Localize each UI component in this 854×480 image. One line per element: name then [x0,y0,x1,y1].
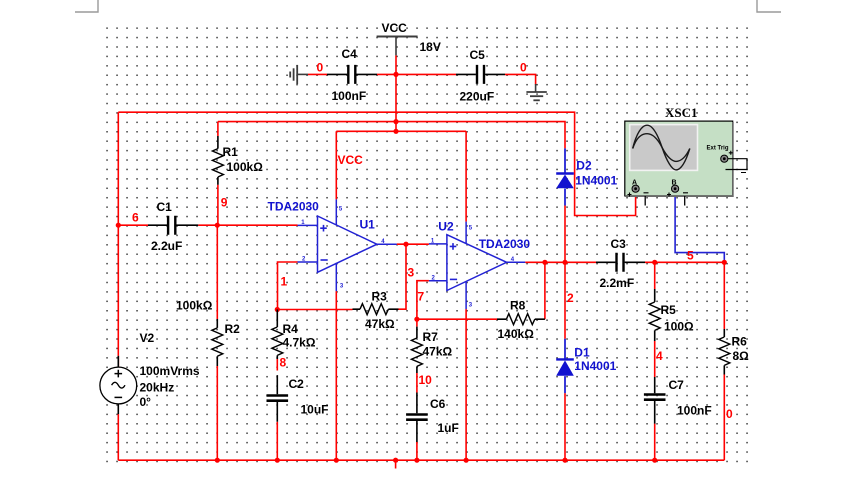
scope A plus minus marks [628,193,649,197]
junction net6 left [116,223,121,228]
junction net9 [215,223,220,228]
junction net2 at D1 [562,260,567,265]
svg-text:C4: C4 [342,47,358,61]
svg-text:1: 1 [281,275,288,289]
wire net9 C1 to U1 pin1 [198,224,297,226]
diode D1 1N4001 [556,339,574,393]
wire net4 segment [654,341,656,377]
svg-text:100mVrms: 100mVrms [140,364,200,378]
svg-text:B: B [672,179,677,186]
svg-text:0°: 0° [140,395,152,409]
wire bottom stub [395,460,397,468]
resistor R2 [212,319,223,366]
svg-text:100Ω: 100Ω [664,320,694,334]
capacitor C4 [327,65,377,84]
capacitor C2 [267,375,289,422]
svg-text:5: 5 [687,249,694,263]
svg-text:2.2mF: 2.2mF [600,276,635,290]
page corner top-right [757,0,781,12]
ground right of C5 [526,84,546,100]
wire R2 bottom to bus [216,366,218,460]
wire R8 right up to net2 [544,262,546,319]
scope B plus minus marks [667,193,688,197]
resistor R5 [649,289,660,341]
svg-text:100kΩ: 100kΩ [227,160,264,174]
svg-text:1N4001: 1N4001 [574,359,616,373]
scope stub ext trig [726,159,748,170]
svg-text:R3: R3 [372,290,388,304]
ground left (rotated) near C4 [290,65,308,84]
wire U1 pin2 to node1 [278,262,298,310]
capacitor C7 [644,377,666,424]
junction bus C7 [652,458,657,463]
op-amp U1 TDA2030 [298,199,397,291]
junction node3 [403,242,408,247]
junction bus stub [393,458,398,463]
diode D2 1N4001 [556,148,574,205]
wire U2 pin5 supply [465,131,467,221]
junction node1 [275,307,280,312]
svg-text:C6: C6 [430,397,446,411]
svg-text:100nF: 100nF [677,404,712,418]
svg-text:C3: C3 [611,237,627,251]
wire R6 top lead [723,262,725,329]
wire D2 top red [564,206,566,263]
resistor R8 [497,314,545,325]
junction bus R2 [215,458,220,463]
wire scope B blue [675,196,724,262]
svg-text:C7: C7 [669,378,685,392]
scope stub B minus [684,196,686,206]
capacitor C5 [456,65,505,84]
svg-text:U1: U1 [360,217,376,231]
source V2 [100,356,137,414]
capacitor C3 [596,253,645,272]
svg-text:2.2uF: 2.2uF [151,239,182,253]
svg-text:100kΩ: 100kΩ [176,299,213,313]
wire node7 run to R8 [417,318,497,320]
wire VCC rail 2 (R1 to D2) [218,122,565,149]
resistor R3 [353,304,399,315]
svg-text:2: 2 [567,291,574,305]
junction bus U1 pin3 [334,458,339,463]
svg-text:D1: D1 [574,346,590,360]
svg-text:D2: D2 [576,159,592,173]
wire R4 red segment net8 [276,359,278,371]
op-amp U2 TDA2030 [429,222,525,310]
scope terminal A [632,185,639,192]
svg-text:R6: R6 [732,335,748,349]
junction bus D1 [562,458,567,463]
svg-text:7: 7 [418,290,425,304]
svg-text:3: 3 [408,266,415,280]
wire R1 bottom to node9 [217,185,219,226]
svg-text:10: 10 [419,373,433,387]
wire U1 pin5 supply [335,131,337,199]
svg-text:C2: C2 [289,377,305,391]
wire R6 bottom to bus [723,375,725,461]
svg-text:A: A [632,179,637,186]
junction net5 at R5 [652,260,657,265]
scope stub A minus [644,196,646,206]
svg-text:4: 4 [656,349,663,363]
wire R1 top lead [217,122,219,136]
junction bus U2 pin3 [464,458,469,463]
svg-text:Ext Trig: Ext Trig [707,146,729,152]
svg-text:1N4001: 1N4001 [575,174,617,188]
svg-text:C5: C5 [470,48,486,62]
svg-text:8Ω: 8Ω [733,349,750,363]
wire U2 output net2 [525,261,724,263]
svg-text:R2: R2 [225,322,241,336]
resistor R1 [212,136,223,185]
wire V2 bottom to bus [117,414,119,460]
wire net3 down to R3 right [399,244,407,309]
wire U1 output to U2 pin1 (net 3) [397,243,429,245]
wire R5 top lead [654,262,656,289]
capacitor C1 [148,216,198,235]
junction net2 at U2 out [542,260,547,265]
svg-text:VCC: VCC [382,21,408,35]
svg-text:140kΩ: 140kΩ [498,327,535,341]
svg-text:V2: V2 [140,331,155,345]
svg-text:C1: C1 [157,200,173,214]
svg-text:TDA2030: TDA2030 [479,237,531,251]
svg-text:10uF: 10uF [301,403,329,417]
svg-text:6: 6 [132,211,139,225]
wire R7 top lead [416,319,418,326]
svg-text:47kΩ: 47kΩ [423,345,453,359]
svg-text:18V: 18V [420,40,441,54]
scope terminal Ext [721,155,728,162]
svg-text:0: 0 [520,61,527,75]
svg-text:R8: R8 [510,299,526,313]
junction node top rail at VCC stem [393,72,398,77]
VCC power symbol [377,37,418,56]
svg-text:100nF: 100nF [332,89,367,103]
svg-text:0: 0 [317,61,324,75]
junction VCC rail2 [393,119,398,124]
wire U1 pin3 to ground bus [335,291,337,460]
wire C6 bottom to bus [416,442,418,460]
wire C2 bottom to bus [276,422,278,460]
capacitor C6 [406,393,428,443]
svg-text:220uF: 220uF [460,90,495,104]
svg-text:R5: R5 [661,303,677,317]
scope ext plus minus marks [729,151,746,173]
svg-text:XSC1: XSC1 [665,105,698,120]
wire VCC stem [395,55,397,131]
wire net6 top run to scope A [118,112,635,215]
wire net6 to C1 [118,224,148,226]
wire ground bottom bus [118,459,724,461]
svg-text:9: 9 [221,196,228,210]
wire left bus net6 [117,112,119,356]
resistor R4 [272,310,283,360]
resistor R6 [719,329,730,375]
svg-text:8: 8 [280,356,287,370]
wire VCC rail 3 (U1 pin5 to U2 pin5) [336,130,466,132]
junction bus C2 [275,458,280,463]
junction VCC rail3 [393,129,398,134]
wire V2 top lead red [117,356,119,367]
svg-text:R4: R4 [283,322,299,336]
svg-text:0: 0 [726,407,733,421]
svg-text:4.7kΩ: 4.7kΩ [283,336,316,350]
wire D1 bottom to bus [564,393,566,460]
scope terminal B [672,185,679,192]
svg-text:VCC: VCC [338,153,364,167]
wire top rail C4-C5 (net 0 / VCC node) [308,74,536,84]
wire U2 pin3 to ground bus [465,309,467,460]
page corner top-left [75,0,98,12]
wire D1 top red [564,262,566,339]
junction bus C6 [414,458,419,463]
wire net10 segment [416,373,418,393]
svg-text:R1: R1 [223,145,239,159]
svg-text:1uF: 1uF [438,421,459,435]
svg-text:TDA2030: TDA2030 [268,199,320,213]
wire R2 top [216,225,218,319]
junction node7 [414,317,419,322]
svg-text:R7: R7 [423,330,439,344]
wire U2 pin2 to node7 [417,281,429,320]
resistor R7 [411,327,422,373]
svg-text:47kΩ: 47kΩ [365,317,395,331]
svg-text:20kHz: 20kHz [140,381,175,395]
wire C7 bottom to bus [654,424,656,461]
wire node1 run to R3 [277,309,352,311]
svg-text:U2: U2 [438,220,454,234]
junction net5 at R6 corner [722,260,727,265]
oscilloscope XSC1 [625,121,747,205]
